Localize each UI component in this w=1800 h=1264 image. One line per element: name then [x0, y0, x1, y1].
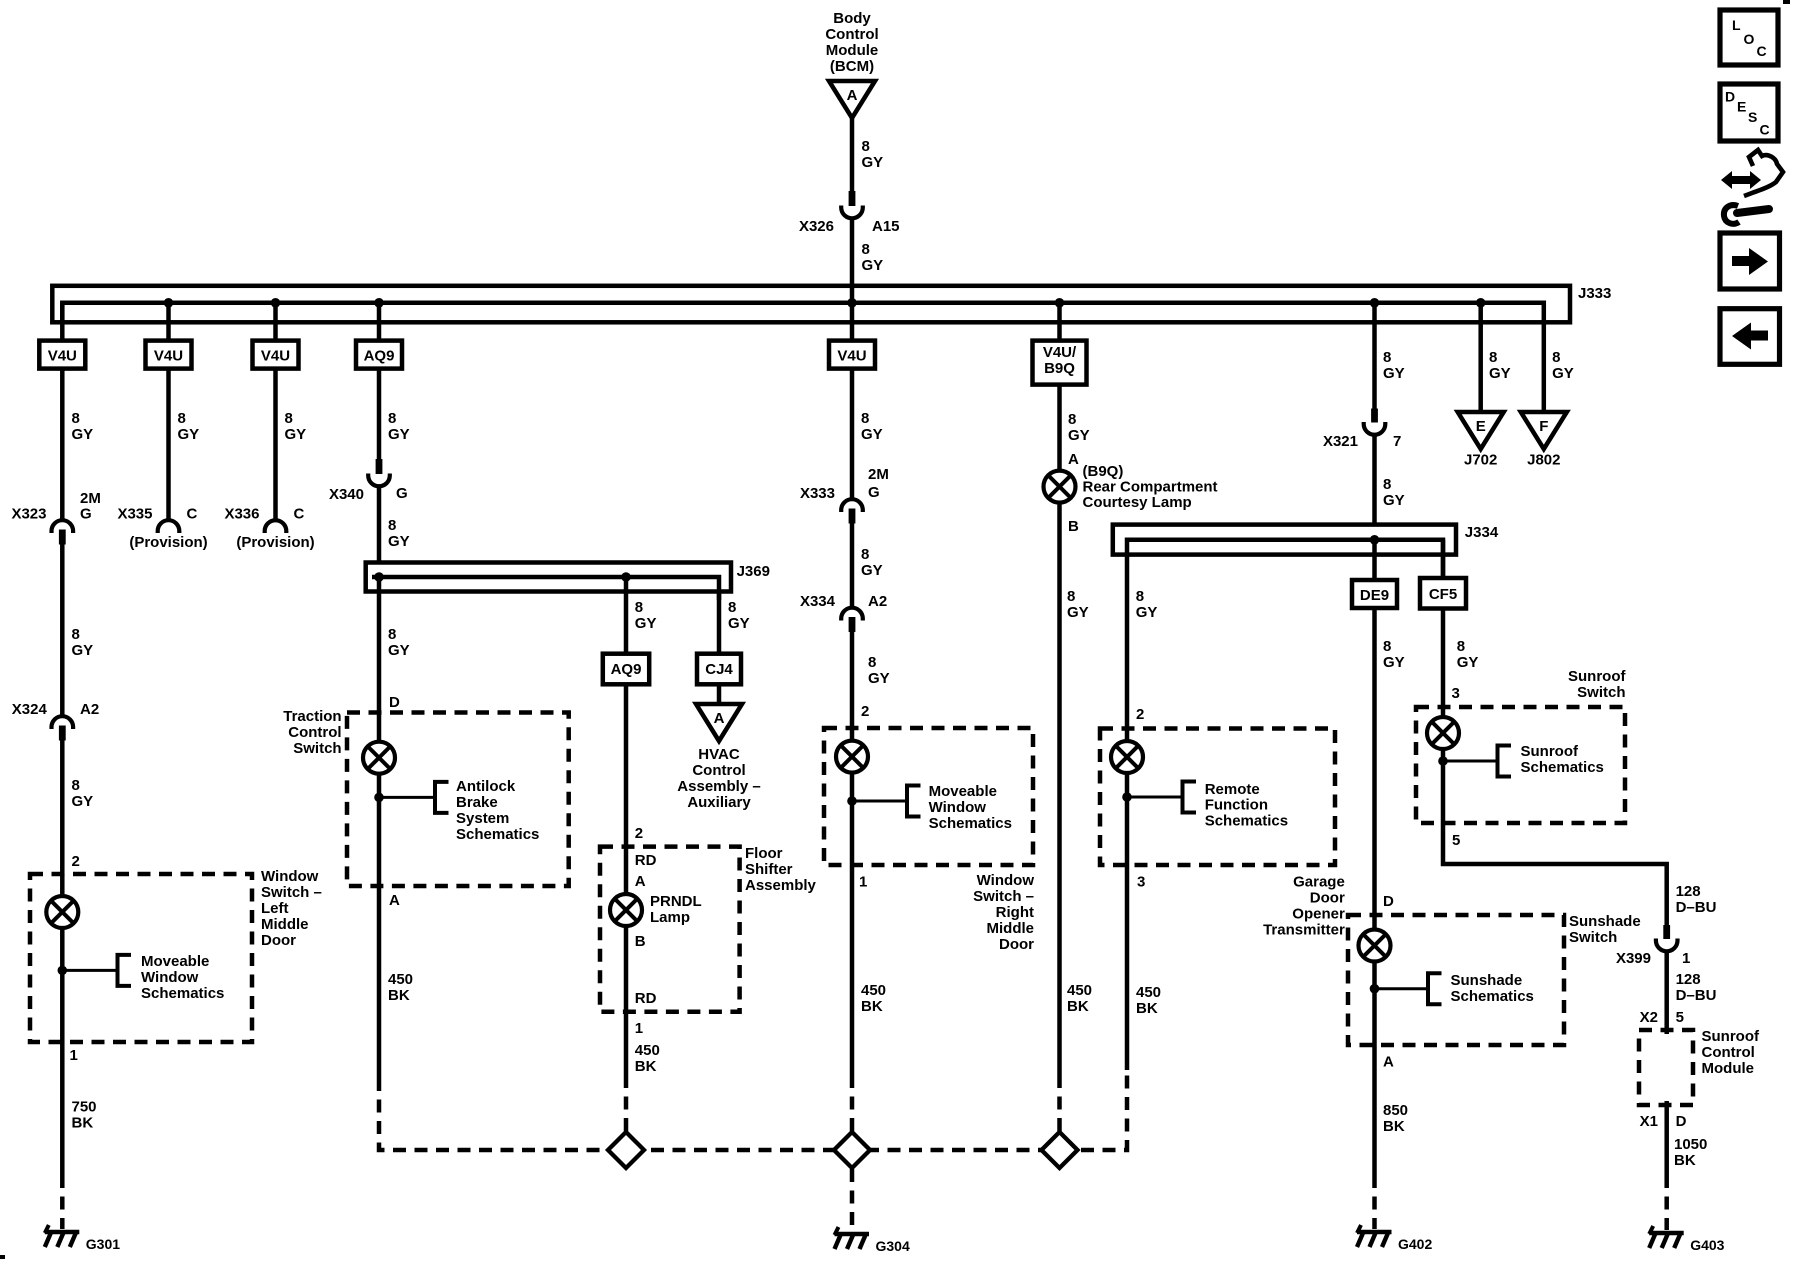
svg-text:DE9: DE9 [1360, 587, 1389, 604]
svg-text:GY: GY [72, 793, 94, 810]
svg-text:GY: GY [1552, 365, 1574, 382]
svg-text:D–BU: D–BU [1676, 899, 1717, 916]
stray mark top-right [1783, 0, 1790, 4]
box V4U/B9Q (column H) [1033, 341, 1087, 385]
svg-text:Door: Door [1310, 890, 1345, 907]
svg-text:BK: BK [1674, 1152, 1696, 1169]
svg-text:Schematics: Schematics [456, 826, 539, 843]
svg-text:C: C [1760, 122, 1770, 138]
wire V4U/B9Q to courtesy lamp [1057, 385, 1062, 1075]
svg-text:Transmitter: Transmitter [1263, 922, 1345, 939]
wire sunroof switch elbow to X399 [1443, 823, 1667, 926]
svg-text:BK: BK [1136, 1000, 1158, 1017]
svg-text:GY: GY [635, 615, 657, 632]
wire J369 to traction control switch [377, 577, 382, 714]
svg-text:3: 3 [1452, 685, 1460, 702]
svg-text:8: 8 [861, 410, 869, 427]
svg-text:128: 128 [1676, 883, 1701, 900]
wire J334 to CF5 [1441, 540, 1446, 578]
svg-text:8: 8 [1383, 476, 1391, 493]
svg-text:GY: GY [178, 426, 200, 443]
svg-text:D: D [1383, 893, 1394, 910]
svg-text:Remote: Remote [1205, 781, 1260, 798]
svg-text:7: 7 [1393, 433, 1401, 450]
svg-text:GY: GY [1067, 604, 1089, 621]
svg-text:J802: J802 [1527, 452, 1560, 469]
component box Floor Shifter Assembly [600, 847, 740, 1012]
box DE9 [1352, 580, 1397, 608]
svg-text:Assembly: Assembly [745, 877, 817, 894]
svg-text:V4U: V4U [48, 348, 77, 365]
svg-text:Moveable: Moveable [141, 953, 209, 970]
svg-text:GY: GY [862, 257, 884, 274]
svg-text:A: A [1383, 1054, 1394, 1071]
svg-text:Control: Control [288, 724, 341, 741]
wire V4U to X335 [166, 369, 171, 520]
svg-text:8: 8 [178, 410, 186, 427]
bus J333 outer rectangle [52, 286, 1570, 323]
wire branch to schematics bracket (right) [852, 800, 907, 803]
bracket Moveable Window Schematics (left) [118, 955, 132, 986]
svg-text:Auxiliary: Auxiliary [687, 794, 751, 811]
component box Window Switch - Left Middle Door [30, 874, 252, 1042]
splice diamond (col E) [608, 1132, 644, 1168]
svg-text:Switch –: Switch – [261, 884, 322, 901]
svg-text:8: 8 [388, 626, 396, 643]
svg-text:GY: GY [1457, 654, 1479, 671]
splice diamond (col G) [834, 1132, 870, 1168]
svg-text:Left: Left [261, 900, 289, 917]
svg-text:8: 8 [1457, 638, 1465, 655]
svg-text:1: 1 [1682, 950, 1690, 967]
wire AQ9 box to floor shifter [624, 684, 629, 847]
ground G304 [835, 1227, 910, 1254]
svg-text:G: G [80, 506, 92, 523]
box V4U (column B) [146, 341, 192, 369]
svg-text:RD: RD [635, 990, 657, 1007]
svg-text:X321: X321 [1323, 433, 1358, 450]
svg-text:D: D [1725, 89, 1735, 105]
junction dot left window switch [58, 966, 68, 976]
lamp right window switch [836, 741, 868, 773]
lamp traction control switch [363, 742, 395, 774]
svg-text:Function: Function [1205, 797, 1268, 814]
svg-text:(Provision): (Provision) [236, 534, 314, 551]
wire J369 to CJ4 box [717, 591, 722, 654]
bus J369 inner conductor [372, 577, 719, 600]
wire V4U to X336 [273, 369, 278, 520]
wire branch to schematics bracket (left) [62, 969, 117, 972]
wire BCM A to X326 [850, 116, 855, 192]
svg-text:B: B [1068, 518, 1079, 535]
wire X323 to X324 [60, 544, 65, 715]
wire inside traction control switch [377, 713, 382, 887]
wire right window switch to ground bus [850, 865, 855, 1075]
wire inside floor shifter [624, 847, 629, 1012]
svg-text:A: A [847, 87, 858, 104]
ground G301 [45, 1225, 120, 1252]
svg-text:8: 8 [868, 654, 876, 671]
ground G402 [1357, 1225, 1432, 1252]
svg-text:Middle: Middle [987, 920, 1035, 937]
connector X326 pin A15 [841, 191, 863, 218]
svg-text:J369: J369 [737, 563, 770, 580]
svg-text:2M: 2M [868, 466, 889, 483]
wire CJ4 to HVAC triangle [717, 684, 722, 705]
connector X323 [52, 520, 74, 544]
svg-text:X333: X333 [800, 485, 835, 502]
junction dot J333/V4U-2 [164, 298, 174, 308]
svg-text:E: E [1476, 418, 1486, 435]
icon button LOC [1720, 10, 1778, 65]
svg-text:GY: GY [861, 426, 883, 443]
svg-text:450: 450 [861, 982, 886, 999]
svg-text:BK: BK [635, 1058, 657, 1075]
svg-text:2M: 2M [80, 490, 101, 507]
svg-text:2: 2 [1136, 706, 1144, 723]
svg-text:Module: Module [826, 42, 879, 59]
wire DE9 to sunshade switch [1372, 608, 1377, 916]
bracket Sunshade Schematics [1428, 973, 1442, 1004]
wire window switch to ground run [60, 1042, 65, 1175]
wire branch to remote schematics bracket [1127, 796, 1183, 799]
svg-text:BK: BK [861, 998, 883, 1015]
svg-text:Schematics: Schematics [1521, 759, 1604, 776]
wire X340 to J369 bus [377, 487, 382, 563]
svg-text:450: 450 [1067, 982, 1092, 999]
svg-text:8: 8 [862, 241, 870, 258]
dashed wire splice to G304 [850, 1169, 855, 1230]
svg-text:8: 8 [1489, 349, 1497, 366]
box CF5 [1420, 578, 1466, 609]
connector X335 (provision) [158, 520, 180, 533]
svg-text:Brake: Brake [456, 794, 498, 811]
svg-text:G: G [396, 485, 408, 502]
svg-text:CF5: CF5 [1429, 586, 1457, 603]
svg-text:Door: Door [999, 936, 1034, 953]
connector triangle A (HVAC) [696, 704, 742, 741]
wire branch to sunroof schematics bracket [1443, 760, 1498, 763]
wire bus drop to box V4U (column B) [166, 303, 171, 341]
svg-text:BK: BK [72, 1115, 94, 1132]
connector X333 [841, 499, 863, 523]
svg-text:GY: GY [862, 154, 884, 171]
wire bus drop to box V4U (column A) [60, 303, 65, 341]
svg-text:Antilock: Antilock [456, 778, 516, 795]
svg-text:Sunroof: Sunroof [1702, 1028, 1760, 1045]
wire branch to sunshade schematics bracket [1375, 987, 1429, 990]
svg-text:GY: GY [1068, 427, 1090, 444]
svg-text:GY: GY [388, 533, 410, 550]
svg-text:8: 8 [1383, 349, 1391, 366]
wire bus drop to box V4U (column G) [850, 303, 855, 341]
svg-text:Window: Window [977, 872, 1035, 889]
stray mark bottom-left [0, 1255, 5, 1259]
wire J333 to X321 [1372, 303, 1377, 409]
svg-text:Sunroof: Sunroof [1521, 743, 1579, 760]
svg-text:X323: X323 [11, 506, 46, 523]
connector triangle F (J802) [1521, 412, 1567, 449]
svg-text:X326: X326 [799, 218, 834, 235]
wire remote function to ground bus [1125, 865, 1130, 1070]
box CJ4 [697, 654, 741, 685]
dashed wire to G402 [1372, 1175, 1377, 1229]
wire inside remote function box [1125, 729, 1130, 866]
svg-text:2: 2 [72, 853, 80, 870]
svg-text:8: 8 [1552, 349, 1560, 366]
wire J334 to DE9 [1372, 540, 1377, 580]
svg-text:Courtesy Lamp: Courtesy Lamp [1083, 494, 1192, 511]
svg-text:G402: G402 [1398, 1236, 1432, 1252]
svg-text:D: D [1676, 1113, 1687, 1130]
svg-text:GY: GY [388, 642, 410, 659]
icon wrench with arrows [1721, 150, 1783, 224]
svg-text:(BCM): (BCM) [830, 58, 874, 75]
connector X340 pin G [368, 459, 390, 486]
connector X399 pin 1 [1656, 925, 1678, 951]
svg-text:Moveable: Moveable [929, 783, 997, 800]
svg-text:2: 2 [635, 825, 643, 842]
junction dot traction switch [374, 793, 384, 803]
dashed wire col H to splice [1057, 1075, 1062, 1150]
svg-text:B9Q: B9Q [1044, 360, 1075, 377]
box AQ9 (column D) [356, 341, 402, 369]
svg-text:G301: G301 [86, 1236, 120, 1252]
wire V4U to X323 [60, 369, 65, 520]
svg-text:2: 2 [861, 703, 869, 720]
svg-text:GY: GY [285, 426, 307, 443]
connector X324 pin A2 [52, 716, 74, 740]
svg-text:J333: J333 [1578, 285, 1611, 302]
svg-text:F: F [1539, 418, 1548, 435]
svg-text:8: 8 [72, 777, 80, 794]
component box Window Switch - Right Middle Door [824, 728, 1033, 865]
svg-text:Middle: Middle [261, 916, 309, 933]
wire J333 to J702 triangle [1478, 303, 1483, 413]
wire X399 to sunroof control module [1664, 952, 1669, 1035]
junction dot J333/AQ9 [374, 298, 384, 308]
svg-text:C: C [294, 506, 305, 523]
svg-text:Sunshade: Sunshade [1451, 972, 1523, 989]
svg-text:Window: Window [141, 969, 199, 986]
svg-text:Shifter: Shifter [745, 861, 793, 878]
svg-text:A2: A2 [80, 701, 99, 718]
svg-text:Switch: Switch [293, 740, 341, 757]
wire inside sunroof switch [1441, 707, 1446, 823]
bracket Antilock Brake System Schematics [435, 782, 449, 813]
ground G403 [1649, 1226, 1724, 1253]
svg-text:Lamp: Lamp [650, 909, 690, 926]
bracket Sunroof Schematics [1498, 746, 1512, 777]
svg-text:Schematics: Schematics [929, 815, 1012, 832]
junction dot J333/X321 [1370, 298, 1380, 308]
lamp left window switch [46, 896, 78, 928]
svg-text:Sunroof: Sunroof [1568, 668, 1626, 685]
junction dot J369/traction wire [374, 572, 384, 582]
bracket Remote Function Schematics [1183, 782, 1197, 813]
svg-text:8: 8 [861, 546, 869, 563]
svg-text:A: A [635, 873, 646, 890]
connector X336 (provision) [265, 520, 287, 533]
svg-text:Schematics: Schematics [1451, 988, 1534, 1005]
svg-text:Floor: Floor [745, 845, 783, 862]
svg-text:G304: G304 [876, 1238, 910, 1254]
svg-text:8: 8 [1136, 588, 1144, 605]
box V4U (column G) [829, 341, 875, 369]
svg-text:GY: GY [72, 426, 94, 443]
component box Sunroof Switch [1416, 707, 1625, 823]
lamp sunshade switch [1359, 930, 1391, 962]
bus J369 outer rectangle [366, 563, 731, 592]
dashed wire col G to splice [850, 1075, 855, 1150]
wire inside right window switch [850, 728, 855, 865]
svg-text:8: 8 [72, 626, 80, 643]
svg-text:V4U: V4U [837, 348, 866, 365]
svg-text:AQ9: AQ9 [611, 661, 642, 678]
dashed wire col E to splice [624, 1075, 629, 1150]
connector X334 pin A2 [841, 608, 863, 632]
svg-text:Switch: Switch [1577, 684, 1625, 701]
svg-text:D–BU: D–BU [1676, 987, 1717, 1004]
svg-text:A: A [389, 892, 400, 909]
svg-text:8: 8 [1383, 638, 1391, 655]
svg-text:HVAC: HVAC [698, 746, 740, 763]
svg-text:G403: G403 [1690, 1237, 1724, 1253]
wire V4U to X333 [850, 369, 855, 498]
svg-text:Switch: Switch [1569, 929, 1617, 946]
svg-text:PRNDL: PRNDL [650, 893, 702, 910]
svg-text:J334: J334 [1465, 524, 1499, 541]
wire X333 to X334 [850, 523, 855, 607]
connector triangle A (BCM) [829, 81, 875, 118]
svg-text:Garage: Garage [1293, 874, 1345, 891]
lamp PRNDL [610, 894, 642, 926]
component box Traction Control Switch [347, 713, 569, 887]
svg-text:1: 1 [635, 1020, 643, 1037]
box AQ9 (column E) [603, 654, 649, 685]
svg-text:GY: GY [1136, 604, 1158, 621]
wire J334 to remote function switch [1125, 554, 1130, 730]
svg-text:850: 850 [1383, 1102, 1408, 1119]
svg-text:E: E [1737, 99, 1746, 115]
svg-text:CJ4: CJ4 [705, 661, 733, 678]
svg-text:5: 5 [1676, 1009, 1684, 1026]
svg-text:V4U: V4U [154, 348, 183, 365]
svg-text:X336: X336 [224, 506, 259, 523]
bracket Moveable Window Schematics (right) [907, 786, 921, 817]
junction dot sunroof switch [1438, 756, 1448, 766]
svg-text:GY: GY [728, 615, 750, 632]
icon button next (right arrow) [1720, 233, 1780, 289]
svg-text:1: 1 [859, 874, 867, 891]
svg-text:X399: X399 [1616, 950, 1651, 967]
svg-text:A15: A15 [872, 218, 900, 235]
svg-text:Body: Body [833, 10, 871, 27]
svg-text:3: 3 [1137, 874, 1145, 891]
svg-text:X334: X334 [800, 593, 836, 610]
svg-text:A: A [714, 710, 725, 727]
svg-text:BK: BK [1383, 1118, 1405, 1135]
svg-text:Right: Right [996, 904, 1034, 921]
svg-text:450: 450 [388, 971, 413, 988]
svg-text:8: 8 [1067, 588, 1075, 605]
svg-text:A2: A2 [868, 593, 887, 610]
svg-text:GY: GY [861, 562, 883, 579]
wire sunshade switch to G402 [1372, 1045, 1377, 1175]
dashed wire to G301 [60, 1175, 65, 1229]
svg-text:Module: Module [1702, 1060, 1755, 1077]
svg-text:5: 5 [1452, 832, 1460, 849]
svg-text:8: 8 [388, 517, 396, 534]
junction dot J333/V4U-3 [271, 298, 281, 308]
svg-text:RD: RD [635, 852, 657, 869]
junction dot J369/AQ9 lamp wire [621, 572, 631, 582]
svg-text:Control: Control [1702, 1044, 1755, 1061]
svg-text:AQ9: AQ9 [364, 348, 395, 365]
wire floor shifter to ground bus [624, 1012, 629, 1075]
wire traction switch to ground bus [377, 886, 382, 1078]
splice diamond (col H) [1042, 1132, 1078, 1168]
svg-text:450: 450 [1136, 984, 1161, 1001]
svg-text:A: A [1068, 451, 1079, 468]
svg-text:Schematics: Schematics [1205, 812, 1288, 829]
junction dot J334/DE9 wire [1370, 535, 1380, 545]
svg-text:System: System [456, 810, 509, 827]
svg-text:750: 750 [72, 1099, 97, 1116]
wire CF5 to sunroof switch [1441, 609, 1446, 709]
svg-text:X1: X1 [1640, 1113, 1658, 1130]
component box Sunshade Switch [1348, 915, 1564, 1045]
svg-text:1050: 1050 [1674, 1136, 1707, 1153]
svg-text:Opener: Opener [1292, 906, 1345, 923]
svg-text:8: 8 [285, 410, 293, 427]
wire bus drop to box V4U/B9Q [1057, 303, 1062, 341]
svg-text:GY: GY [868, 670, 890, 687]
svg-text:Assembly –: Assembly – [677, 778, 760, 795]
svg-text:S: S [1748, 109, 1757, 125]
component box Remote Function (garage door opener) [1100, 729, 1335, 866]
dashed ground bus wire [379, 1070, 1127, 1150]
component box Sunroof Control Module [1639, 1030, 1693, 1105]
svg-text:Rear Compartment: Rear Compartment [1083, 479, 1218, 496]
connector X321 pin 7 [1364, 409, 1386, 435]
svg-text:8: 8 [635, 599, 643, 616]
junction dot remote function [1122, 792, 1132, 802]
junction dot J333/J702 [1476, 298, 1486, 308]
wire X326 to J333 bus [850, 218, 855, 303]
svg-text:8: 8 [862, 138, 870, 155]
svg-text:128: 128 [1676, 971, 1701, 988]
svg-text:X340: X340 [329, 486, 364, 503]
svg-text:GY: GY [72, 642, 94, 659]
junction dot sunshade switch [1370, 984, 1380, 994]
svg-text:Schematics: Schematics [141, 985, 224, 1002]
svg-text:L: L [1732, 17, 1741, 33]
svg-text:8: 8 [388, 410, 396, 427]
svg-text:Window: Window [929, 799, 987, 816]
dashed wire to G403 [1664, 1175, 1669, 1230]
junction dot J333/BCM wire [847, 298, 857, 308]
svg-text:(Provision): (Provision) [129, 534, 207, 551]
svg-text:(B9Q): (B9Q) [1083, 463, 1124, 480]
lamp sunroof switch [1427, 717, 1459, 749]
wire inside left window switch [60, 874, 65, 1042]
svg-text:450: 450 [635, 1042, 660, 1059]
svg-text:8: 8 [72, 410, 80, 427]
svg-text:8: 8 [1068, 411, 1076, 428]
svg-text:1: 1 [70, 1047, 78, 1064]
lamp remote function [1111, 741, 1143, 773]
